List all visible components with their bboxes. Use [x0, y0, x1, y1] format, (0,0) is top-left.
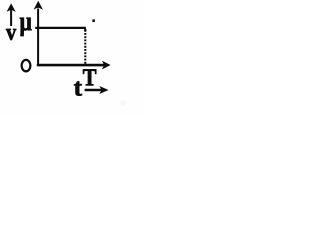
stray ink dot	[92, 19, 95, 22]
x-axis	[37, 64, 104, 67]
mu line end corner nub	[84, 29, 86, 31]
label t	[74, 82, 82, 96]
mu level line	[35, 27, 86, 29]
background	[0, 0, 143, 114]
dotted vertical line at T	[84, 30, 86, 64]
label v	[6, 29, 16, 40]
v-axis label arrow (small up arrow above v)	[7, 3, 16, 26]
faint scan smudge	[120, 100, 126, 106]
y-axis	[37, 9, 39, 66]
x-axis arrowhead	[102, 61, 111, 70]
label O (origin)	[22, 60, 31, 72]
y-axis arrowhead	[34, 1, 43, 10]
label T	[83, 69, 96, 85]
t arrow	[85, 86, 109, 94]
label mu	[20, 18, 32, 36]
